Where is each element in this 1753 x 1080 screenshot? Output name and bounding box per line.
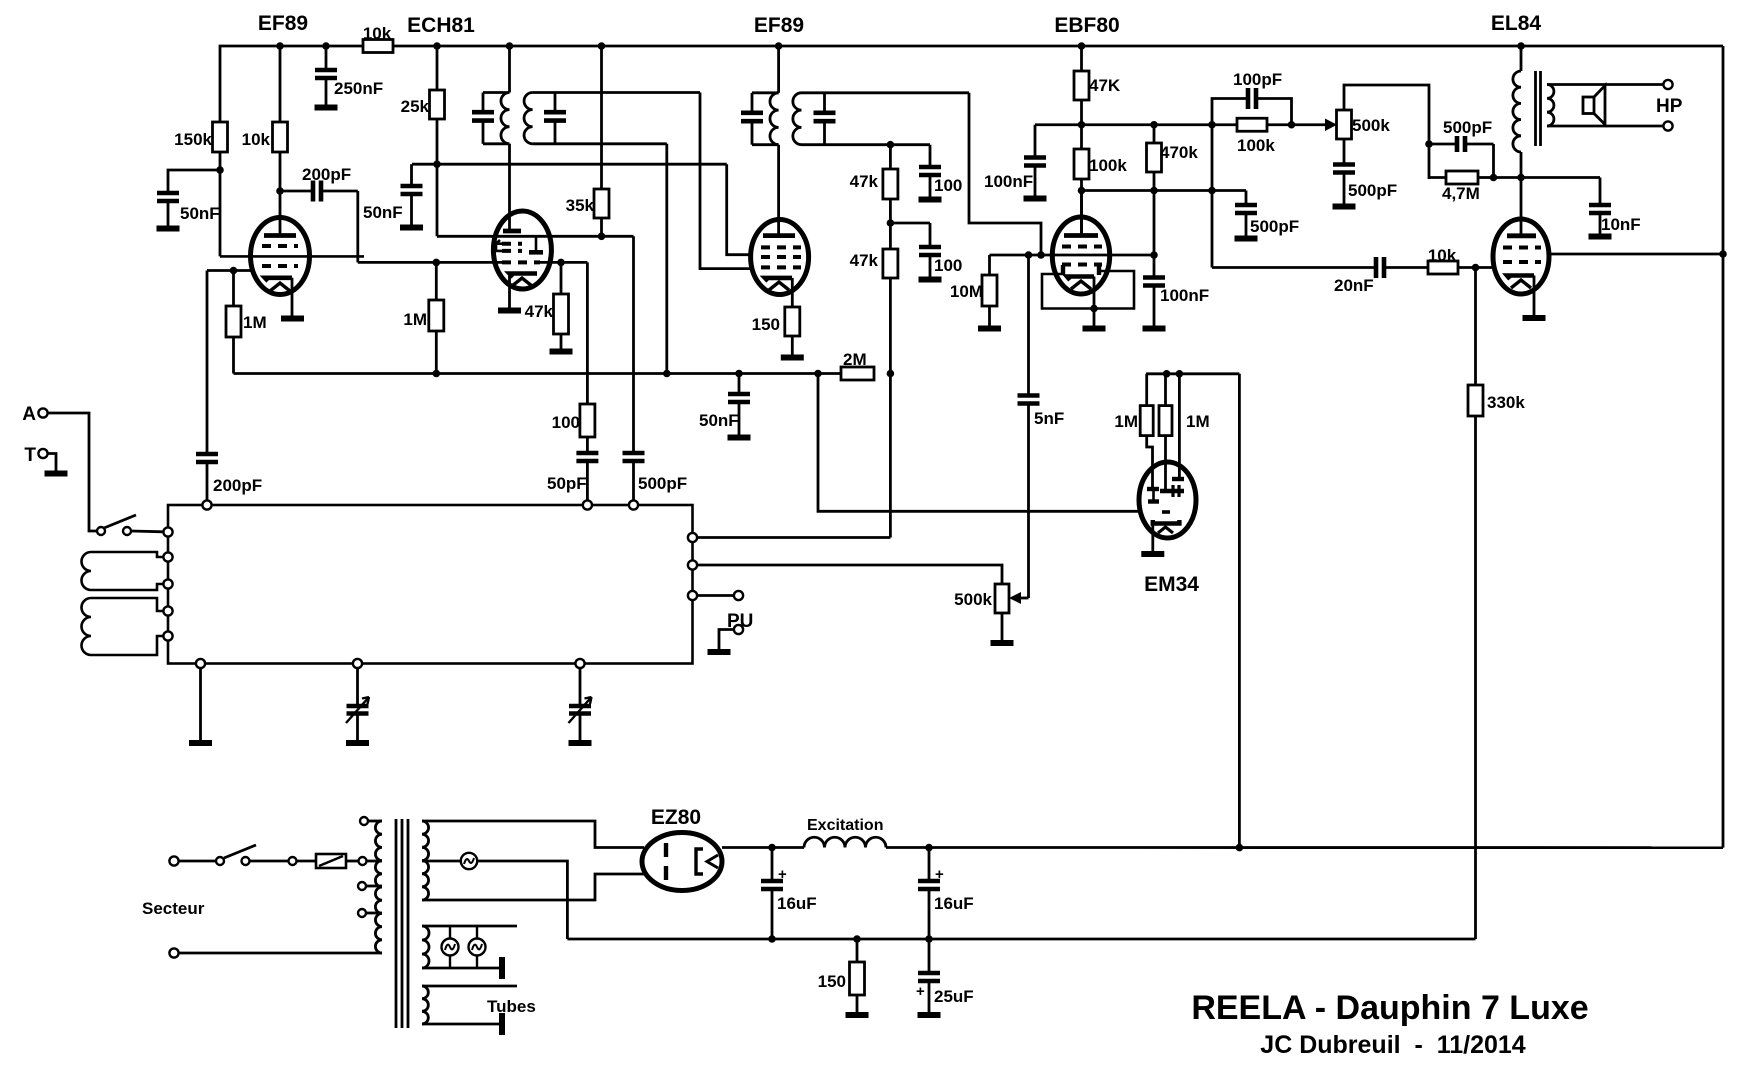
svg-text:ECH81: ECH81 (407, 14, 475, 37)
resistor 47k (AGC filter b) (883, 249, 898, 278)
wire IF1 secondary top to grid stub (700, 93, 751, 269)
svg-text:470k: 470k (1160, 143, 1198, 162)
capacitor 50nF (ECH81 decoupling) (410, 164, 413, 186)
wire switch to fuse (250, 860, 289, 863)
resistor 47k (AGC filter a) (889, 145, 892, 169)
svg-text:EF89: EF89 (258, 12, 308, 35)
capacitor 200pF (coupling EF89a to ECH81) (280, 190, 313, 193)
terminal box right 1 (688, 533, 697, 542)
wire anode feedback line (1494, 176, 1601, 179)
svg-text:Tubes: Tubes (487, 997, 536, 1016)
terminal PU ground (734, 625, 743, 634)
svg-text:JC Dubreuil - 11/2014: JC Dubreuil - 11/2014 (1260, 1031, 1525, 1059)
wire EBF80 anode lead (1080, 191, 1083, 234)
capacitor IF2 primary tuning (751, 93, 754, 113)
svg-text:47k: 47k (525, 302, 554, 321)
wire HV bottom to EZ80 anode 2 (422, 874, 644, 900)
terminal box-500pF (629, 500, 638, 509)
svg-text:50nF: 50nF (699, 411, 739, 430)
ground 100 a (919, 197, 942, 203)
wire to 50nF decoupling (168, 170, 220, 193)
ground 50nF ECH81 (400, 225, 423, 231)
wire T to ground (48, 454, 57, 472)
capacitor IF1 secondary tuning (554, 93, 557, 113)
tube EF89 first (RF amplifier) (251, 218, 310, 295)
wire screen line y124 (1035, 123, 1212, 126)
pilot lamp 2 (469, 939, 486, 956)
diode return box EBF80 (1042, 271, 1134, 309)
node 5nF top (1025, 251, 1033, 259)
wire EM34 target anode feed (1178, 374, 1181, 479)
ground 100nF screen (1024, 196, 1047, 202)
output transformer secondary coil (1547, 85, 1554, 127)
node 150 top (853, 935, 861, 943)
node 47K bottom (1078, 121, 1086, 129)
capacitor 10nF (across output) (1599, 178, 1602, 206)
output transformer core (1534, 71, 1537, 146)
terminal box-200pF (202, 500, 211, 509)
wire speaker bottom (1547, 125, 1664, 128)
power transformer HV secondary coil (422, 821, 429, 900)
dial lamp (461, 853, 477, 869)
node 1M-d top (1163, 370, 1171, 378)
capacitor 500pF (tone pot bottom) (1343, 139, 1346, 165)
terminal PU hot (734, 591, 743, 600)
node EM34 target feed (1176, 370, 1184, 378)
svg-text:500pF: 500pF (1250, 217, 1299, 236)
svg-text:10k: 10k (242, 130, 271, 149)
svg-text:EZ80: EZ80 (651, 806, 701, 829)
ground 150 EF89b (781, 355, 804, 361)
ground 47k oscillator (550, 349, 573, 355)
wire volume pot to ground (1001, 613, 1004, 640)
wire oscillator feedback down (586, 262, 589, 404)
resistor 47k (oscillator grid leak) (560, 262, 563, 294)
resistor 10M (988, 255, 991, 275)
svg-text:500k: 500k (1352, 116, 1390, 135)
resistor 150 (back bias) (856, 939, 859, 962)
svg-text:200pF: 200pF (302, 165, 351, 184)
svg-text:47k: 47k (850, 172, 879, 191)
wire box to volume pot (697, 565, 1002, 584)
capacitor 20nF (1376, 257, 1384, 278)
wire 1M left to triode anode (1147, 436, 1153, 489)
svg-text:150: 150 (752, 315, 780, 334)
ground volume pot (991, 640, 1014, 646)
tuner block box (168, 505, 693, 664)
capacitor 5nF (AF coupling) (1027, 255, 1030, 396)
terminal HP top (1663, 80, 1672, 89)
wire B+ after choke (886, 846, 1723, 849)
wire to tone pot wiper with arrow (1292, 123, 1331, 126)
terminal A (38, 408, 47, 417)
svg-text:16uF: 16uF (934, 894, 974, 913)
capacitor 16uF (filter a) (771, 848, 774, 882)
svg-text:100nF: 100nF (1160, 286, 1209, 305)
wire speaker top (1547, 83, 1664, 86)
wire grid line through EF89a (220, 255, 364, 258)
node bus-35k (598, 42, 606, 50)
ground EL84 cathode (1523, 315, 1546, 321)
wire 25k to screen line (436, 119, 439, 236)
terminal fuse left (289, 857, 297, 865)
svg-text:50nF: 50nF (363, 203, 403, 222)
svg-text:200pF: 200pF (213, 476, 262, 495)
node 470k bottom grid line (1150, 251, 1158, 259)
wire detector grid line y255 (990, 254, 1155, 257)
wire B+ top bus right segment (393, 45, 1723, 48)
ground 150 (846, 1012, 869, 1018)
capacitor 50nF (AVC filter) (738, 374, 741, 395)
ground filament 3 (499, 1013, 505, 1035)
wire supply return line (567, 938, 1475, 941)
resistor 4,7M (feedback) (1446, 171, 1478, 184)
resistor 35k (600, 46, 603, 189)
capacitor 500pF (anode output) (1245, 191, 1248, 206)
svg-text:100: 100 (552, 413, 580, 432)
ground PU (708, 649, 731, 655)
capacitor 16uF (filter b) (928, 848, 931, 881)
resistor 2M (AVC) (841, 367, 874, 380)
svg-text:10k: 10k (363, 24, 392, 43)
resistor 470k (1153, 125, 1156, 143)
wire screen feed line y164 (412, 163, 727, 166)
primary tap 2 (358, 882, 366, 890)
svg-text:100: 100 (934, 256, 962, 275)
svg-text:20nF: 20nF (1334, 276, 1374, 295)
svg-text:100nF: 100nF (984, 172, 1033, 191)
node 1212-124 (1208, 121, 1216, 129)
svg-text:1M: 1M (1114, 412, 1138, 431)
svg-text:47K: 47K (1089, 76, 1121, 95)
node 47k oscillator leak top (557, 259, 565, 267)
terminal box-50pF (583, 500, 592, 509)
ground 500pF output (1235, 236, 1258, 242)
wire EF89b cathode (791, 278, 794, 307)
switch antenna (97, 527, 105, 535)
resistor 150k (219, 122, 222, 152)
wire IF2 secondary to EBF80 grid (969, 93, 1041, 255)
svg-text:2M: 2M (843, 350, 867, 369)
wire EL84 grid coupling (1212, 266, 1376, 269)
antenna coil A (82, 552, 164, 590)
svg-text:+: + (916, 983, 925, 1000)
wire AVC to EM34 grid (818, 374, 1139, 512)
ground 100nF detector (1143, 326, 1166, 332)
wire 330k to supply return (1474, 416, 1477, 939)
IF transformer 2 primary coil (777, 46, 780, 93)
svg-text:REELA - Dauphin 7 Luxe: REELA - Dauphin 7 Luxe (1191, 989, 1588, 1027)
capacitor 100 (AGC filter b) (929, 223, 932, 247)
resistor 1M (EF89a grid leak) (232, 271, 235, 307)
ground box 1 (189, 740, 212, 746)
terminal box bottom 3 (575, 659, 584, 668)
output transformer primary coil (1520, 46, 1523, 71)
wire box to AGC line (697, 536, 890, 539)
node 470k-y190 crossing (1150, 187, 1158, 195)
capacitor 25uF (928, 939, 931, 973)
tube EZ80 (rectifier) (642, 833, 722, 891)
terminal box right 2 (688, 560, 697, 569)
resistor 330k (grid leak) (1474, 268, 1477, 386)
wire EZ80 cathode output (722, 846, 804, 849)
power transformer primary coil (375, 821, 382, 953)
primary tap 3 (358, 909, 366, 917)
wire feedback cap to 4.7M junction (1492, 144, 1495, 178)
speaker HP (1583, 86, 1605, 125)
primary tap fuse (367, 860, 383, 863)
inductor Excitation (field coil) (804, 837, 886, 847)
node 35k bottom (598, 233, 606, 241)
IF transformer 1 secondary coil (524, 93, 533, 144)
wire antenna grid stub EF89a (207, 269, 251, 272)
svg-text:A: A (22, 404, 36, 425)
svg-text:4,7M: 4,7M (1442, 184, 1480, 203)
ground filament 2 (499, 957, 505, 979)
tube EM34 (magic eye) (1139, 462, 1196, 538)
power transformer filament winding 2 (422, 926, 429, 968)
IF2 primary bottom rail (752, 143, 779, 146)
ground ECH81 cathode (498, 308, 521, 314)
resistor 10k (grid stopper) (1428, 261, 1458, 274)
tube EBF80 (IF/detector) (1052, 217, 1109, 294)
tube ECH81 (mixer-oscillator) (493, 211, 551, 289)
svg-text:EF89: EF89 (754, 14, 804, 37)
node grid-1M junction (230, 267, 238, 275)
ground trimmer 1 (346, 740, 369, 746)
resistor 10k (EF89a plate load) (279, 46, 282, 122)
svg-text:EL84: EL84 (1491, 12, 1542, 35)
wire B+ top bus left segment (220, 46, 363, 122)
ground EM34 (1141, 551, 1164, 557)
capacitor 100 (AGC filter a) (929, 145, 932, 167)
IF1 secondary top rail to EF89b grid drop (533, 91, 700, 94)
node AVC-1M ECH81 (433, 370, 441, 378)
terminal box left 4 (163, 606, 172, 615)
fuse (297, 860, 317, 863)
capacitor 100nF (detector) (1143, 278, 1165, 286)
wire 1M ECH81 to AVC line (435, 331, 438, 374)
svg-text:T: T (24, 445, 36, 466)
svg-text:100pF: 100pF (1233, 70, 1282, 89)
capacitor IF2 secondary tuning (823, 93, 826, 113)
IF1 secondary bottom rail (AVC) (533, 142, 667, 145)
tube EL84 (audio output) (1493, 219, 1549, 294)
node bus-IF1 primary (506, 42, 514, 50)
primary tap top (360, 817, 368, 825)
node EL84 grid junction (1472, 264, 1480, 272)
wire EF89b anode lead (777, 145, 780, 236)
ground T (45, 471, 68, 477)
node 100k-100pF right (1288, 121, 1296, 129)
resistor 25k (436, 46, 439, 90)
svg-text:HP: HP (1656, 96, 1683, 117)
svg-text:150: 150 (818, 972, 846, 991)
IF2 secondary bottom rail (to 47k chain) (802, 143, 931, 146)
wire filament 3 bottom (422, 1023, 499, 1026)
node bus-IF2 primary (775, 42, 783, 50)
node 16uF-a top (768, 844, 776, 852)
wire 47k-b to volume line (889, 278, 892, 538)
tube EF89 second (IF amplifier) (751, 220, 809, 295)
wire EL84 g2 to right rail (1549, 253, 1723, 256)
svg-text:1M: 1M (243, 313, 267, 332)
svg-text:50nF: 50nF (180, 204, 220, 223)
IF2 secondary top rail (802, 91, 970, 94)
svg-text:5nF: 5nF (1034, 409, 1064, 428)
resistor 10k (series in B+ bus) (363, 40, 393, 53)
wire EM34 B+ drop to supply (1238, 374, 1241, 848)
svg-text:25k: 25k (401, 97, 430, 116)
terminal box bottom 2 (353, 659, 362, 668)
trimmer capacitor 2 (579, 668, 582, 706)
antenna coil B (82, 598, 164, 655)
wiper arrow volume (1013, 597, 1029, 600)
wire IF1 secondary bottom to AVC line (665, 144, 668, 374)
node bus-250nF (322, 42, 330, 50)
resistor 100k (tone) (1212, 123, 1237, 126)
wire screen line y236 through ECH81 to 35k (437, 235, 634, 238)
IF1 primary top rail (483, 91, 510, 94)
svg-text:1M: 1M (1186, 412, 1210, 431)
wire EM34 cathode to ground (1151, 524, 1154, 552)
svg-text:500k: 500k (954, 590, 992, 609)
svg-text:10k: 10k (1428, 246, 1457, 265)
IF1 primary bottom rail (483, 142, 510, 145)
node AVC-EM34 feed (814, 370, 822, 378)
node y190-1212 (1208, 187, 1216, 195)
node 47k-b AVC crossing (887, 370, 895, 378)
ground 10M (978, 326, 1001, 332)
capacitor 50nF (EF89a grid decoupling) (157, 193, 179, 201)
svg-text:Secteur: Secteur (142, 899, 205, 918)
resistor 1M (ECH81 grid leak) (435, 262, 438, 300)
resistor 1M (EM34 left) (1145, 374, 1148, 406)
ground 100 b (919, 277, 942, 283)
power transformer filament winding 3 (tubes) (422, 986, 428, 1024)
node feedback to anode line (1490, 174, 1498, 182)
potentiometer 500k (tone) (1337, 110, 1352, 139)
node 470k top (1150, 121, 1158, 129)
svg-text:EBF80: EBF80 (1054, 14, 1119, 37)
svg-text:500pF: 500pF (1443, 118, 1492, 137)
node 16uF-a bottom (768, 935, 776, 943)
svg-text:10M: 10M (950, 282, 983, 301)
svg-text:500pF: 500pF (1348, 181, 1397, 200)
svg-text:250nF: 250nF (334, 79, 383, 98)
svg-text:16uF: 16uF (777, 894, 817, 913)
capacitor 500pF (oscillator tank) (632, 236, 635, 453)
svg-text:35k: 35k (566, 196, 595, 215)
wire PU ground (719, 630, 734, 650)
wire lamp to return line (477, 861, 567, 939)
wire oscillator grid line y262 through ECH81 (502, 260, 540, 264)
ground 10nF (1589, 234, 1612, 240)
wire 1M right lead (1164, 436, 1167, 491)
ground 500pF tone (1333, 204, 1356, 210)
capacitor 50pF (oscillator padder) (576, 453, 598, 461)
wire EM34 B+ line (1146, 372, 1239, 375)
svg-text:100k: 100k (1089, 156, 1127, 175)
switch mains (179, 860, 216, 863)
ground EF89a cathode (281, 316, 304, 322)
node 25k-50nF-IF line (433, 160, 441, 168)
svg-text:100k: 100k (1237, 136, 1275, 155)
node 25uF top (925, 935, 933, 943)
node 47k junction (889, 199, 892, 249)
wire filament 2 bottom (422, 967, 499, 970)
wire PU input (697, 594, 734, 597)
capacitor IF1 primary tuning (482, 93, 485, 113)
node AVC-50nF (735, 370, 743, 378)
node bus-output transformer (1517, 42, 1525, 50)
wire ECH81 cathode to ground (508, 274, 511, 309)
wire antenna input (48, 413, 98, 531)
node EM34 B+ tap (1236, 844, 1244, 852)
wire right-edge vertical (B+ down right side) (1722, 46, 1725, 848)
pilot lamp 1 (442, 939, 459, 956)
capacitor 100nF (screen decoupling) (1034, 125, 1037, 158)
node IF2 feed join (1037, 251, 1045, 259)
potentiometer 500k (volume) (995, 584, 1009, 613)
ground trimmer 2 (569, 740, 592, 746)
wire HV top to EZ80 anode 1 (422, 821, 644, 848)
terminal T (38, 449, 47, 458)
wire filament 2 top (422, 925, 517, 928)
wire filament 3 top (422, 985, 517, 988)
ground 50nF (157, 226, 180, 232)
terminal box left 5 (163, 631, 172, 640)
wire EL84 anode lead (1520, 178, 1523, 236)
resistor 47K (EBF80 plate load) (1080, 46, 1083, 71)
svg-text:1M: 1M (403, 310, 427, 329)
terminal box left 2 (163, 552, 172, 561)
wire AVC line (234, 372, 842, 375)
node 16uF-b top (925, 844, 933, 852)
terminal mains 2 (169, 948, 178, 957)
node 150k-50nF junction (216, 166, 224, 174)
svg-text:500pF: 500pF (638, 474, 687, 493)
terminal box left 3 (163, 579, 172, 588)
wire box ground 1 (199, 668, 202, 740)
wire ECH81 anode lead (508, 144, 511, 231)
node bus-47K EBF80 (1078, 42, 1086, 50)
wire EBF80 cathode to ground (1093, 277, 1096, 327)
node 47k-a top (887, 141, 895, 149)
ground EBF80 cathode (1083, 326, 1106, 332)
wire HV center tap with dial lamp (422, 860, 461, 863)
resistor 1M (EM34 right) (1164, 374, 1167, 406)
power transformer core (395, 819, 398, 1028)
resistor 150 (EF89b cathode) (785, 307, 800, 336)
node bus-EF89a anode (276, 42, 284, 50)
node anode-200pF junction (276, 187, 284, 195)
wire 10k to anode (279, 152, 282, 234)
terminal box right 3 (688, 591, 697, 600)
ground 250nF (315, 105, 338, 111)
svg-text:330k: 330k (1487, 393, 1525, 412)
wire mains bottom to primary (179, 952, 383, 955)
wire 1M to AVC line (232, 337, 235, 374)
terminal fuse right (359, 857, 367, 865)
wire switch to box (131, 530, 164, 534)
node feedback junction (1425, 140, 1433, 148)
terminal HP bottom (1663, 121, 1672, 130)
IF transformer 1 primary coil (508, 46, 511, 93)
wire anode output line y190 (1082, 189, 1247, 192)
capacitor 200pF (antenna input) (206, 271, 209, 455)
ground 25uF (918, 1012, 941, 1018)
